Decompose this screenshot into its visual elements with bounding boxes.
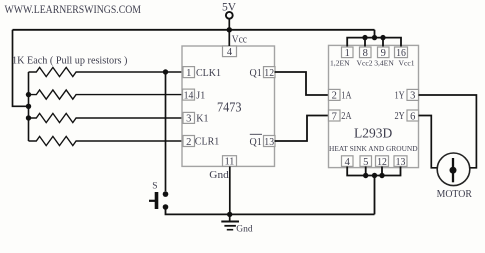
resistor R1 — [29, 67, 184, 76]
pin 5 ground — [360, 156, 372, 168]
node junction bottom bus pin5 — [363, 173, 368, 178]
wire top 5V rail — [13, 29, 375, 31]
svg-text:1Y: 1Y — [395, 91, 406, 102]
svg-text:13: 13 — [264, 137, 274, 148]
ground symbol — [221, 214, 253, 234]
pin 14 J1 — [183, 89, 206, 101]
svg-text:3: 3 — [186, 114, 191, 125]
svg-text:13: 13 — [396, 157, 406, 168]
wire Vcc drop to pin 4 — [228, 30, 230, 46]
pin 7 2A — [329, 110, 352, 122]
resistor R3 — [29, 113, 184, 122]
wire switch drop — [165, 72, 167, 191]
svg-text:Q1: Q1 — [250, 137, 262, 148]
pin 16 Vcc1 — [395, 47, 415, 67]
wire resistor bus vertical — [28, 72, 30, 141]
svg-text:1A: 1A — [341, 91, 352, 102]
IC U2 L293D body — [329, 45, 419, 167]
node junction top bus feed — [372, 35, 377, 40]
svg-text:4: 4 — [345, 157, 351, 168]
node junction 5V at Vcc drop — [227, 27, 232, 32]
pin 3 K1 — [183, 112, 209, 124]
svg-text:1K Each ( Pull up resistors ): 1K Each ( Pull up resistors ) — [12, 56, 127, 67]
svg-text:Gnd: Gnd — [236, 224, 253, 234]
pin 4 Vcc top — [223, 34, 248, 58]
svg-text:2: 2 — [332, 91, 337, 102]
svg-text:Vcc2: Vcc2 — [356, 58, 372, 67]
pin 11 Gnd bottom — [209, 156, 236, 181]
svg-text:6: 6 — [410, 111, 415, 122]
pin 2 1A — [329, 89, 352, 101]
wire Q1bar to 2A — [275, 116, 329, 142]
pin 3 1Y — [395, 89, 419, 101]
resistor R4 — [29, 136, 184, 145]
wire L293D bottom bus — [347, 167, 400, 215]
node junction top bus pin9 — [380, 35, 385, 40]
pin 4 ground — [342, 156, 354, 168]
svg-text:11: 11 — [225, 157, 235, 168]
wire left vertical from rail — [13, 30, 29, 107]
svg-text:3,4EN: 3,4EN — [374, 58, 394, 67]
svg-text:Q1: Q1 — [250, 68, 262, 79]
node junction ground rail — [227, 212, 232, 217]
svg-text:Vcc1: Vcc1 — [398, 58, 414, 67]
svg-text:Gnd: Gnd — [209, 170, 229, 181]
switch S — [149, 182, 168, 210]
svg-text:WWW.LEARNERSWINGS.COM: WWW.LEARNERSWINGS.COM — [5, 2, 142, 16]
wire 2Y to motor — [419, 116, 439, 168]
svg-text:S: S — [152, 182, 157, 192]
motor M1 — [437, 153, 473, 200]
svg-text:3: 3 — [410, 91, 415, 102]
pin 9 3,4EN — [374, 47, 394, 67]
svg-text:4: 4 — [227, 47, 233, 58]
node junction bottom bus pin12 — [379, 173, 384, 178]
wire pin11 to ground rail — [229, 167, 231, 215]
pin 12 ground — [376, 156, 389, 168]
svg-text:2A: 2A — [341, 111, 352, 122]
pin 13 Q1bar — [250, 134, 276, 148]
svg-text:1: 1 — [186, 68, 191, 79]
resistor R2 — [29, 90, 184, 99]
pin 8 Vcc2 — [356, 47, 372, 67]
node junction bus row3 — [26, 115, 31, 120]
svg-text:2: 2 — [186, 137, 191, 148]
svg-text:HEAT SINK AND GROUND: HEAT SINK AND GROUND — [329, 144, 418, 153]
svg-text:CLR1: CLR1 — [195, 137, 219, 148]
svg-text:1,2EN: 1,2EN — [330, 58, 350, 67]
pin 1 CLK1 — [183, 67, 221, 79]
svg-text:7473: 7473 — [217, 100, 242, 115]
svg-text:MOTOR: MOTOR — [437, 189, 473, 200]
svg-text:12: 12 — [377, 157, 387, 168]
svg-text:12: 12 — [264, 68, 274, 79]
node junction switch tap on CLK1 row — [163, 69, 168, 74]
node junction bottom bus drop — [372, 173, 377, 178]
pin 12 Q1 — [250, 67, 276, 79]
node junction bus row2 — [26, 92, 31, 97]
svg-text:Vcc: Vcc — [232, 34, 248, 45]
svg-text:J1: J1 — [196, 90, 205, 101]
node junction top bus pin8 — [362, 35, 367, 40]
node junction bus feed — [26, 104, 31, 109]
pin 13 ground — [394, 156, 407, 168]
5V supply terminal — [222, 2, 237, 30]
pin 2 CLR1 — [183, 136, 219, 148]
svg-text:CLK1: CLK1 — [196, 68, 221, 79]
svg-text:L293D: L293D — [354, 125, 392, 140]
svg-text:2Y: 2Y — [395, 111, 406, 122]
wire L293D top bus — [347, 30, 401, 47]
wire bottom ground rail — [166, 209, 375, 215]
pin 6 2Y — [395, 110, 419, 122]
svg-text:7: 7 — [332, 111, 337, 122]
wire 1Y to motor — [419, 95, 477, 168]
IC U1 7473 body — [182, 46, 275, 166]
pin 1 1,2EN — [330, 47, 353, 67]
svg-text:14: 14 — [184, 90, 195, 101]
svg-text:5: 5 — [363, 157, 368, 168]
svg-text:K1: K1 — [196, 114, 208, 125]
wire Q1 to 1A — [275, 72, 329, 95]
